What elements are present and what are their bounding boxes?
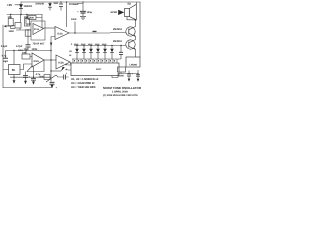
speaker LS1 [125,2,137,20]
svg-text:1N4001: 1N4001 [24,5,33,8]
wire U2B output [70,62,71,65]
resistor R2 [25,15,32,27]
wire ground return [10,76,51,78]
transistor Q2 [126,40,136,50]
resistor R8 [25,30,31,36]
resistor R3 feedback [26,16,42,25]
box IC2 timer [3,51,32,75]
capacitor C3 [119,46,123,60]
svg-text:(C) 2008 ZEN HOME CIRCUITS: (C) 2008 ZEN HOME CIRCUITS [103,94,138,97]
wire right rail [139,2,141,57]
junction blob [93,31,97,32]
wire bottom right [112,74,138,78]
wire U1B output to Q1 base [69,32,126,35]
wire left rail [2,25,4,88]
svg-text:4.7µF: 4.7µF [16,45,23,48]
box small [44,75,50,80]
diode D6 [103,46,107,60]
diode D3 [82,46,86,60]
diode D5 [96,46,100,60]
capacitor C10 at rail end [50,82,58,89]
wire +9V top rail [21,1,140,3]
wire fb right vertical [41,15,43,29]
svg-text:U1, U2 = LM358CN x2: U1, U2 = LM358CN x2 [71,78,99,81]
U2A feedback loop [27,60,44,72]
wire U1B supply stub [66,2,68,27]
svg-text:POWER: POWER [69,3,79,6]
wire diode bus [74,45,126,47]
svg-text:0.1µF: 0.1µF [1,45,8,48]
op-amp U2A [32,53,44,67]
svg-text:100K: 100K [39,76,45,79]
svg-text:U3 = CD4017BE IC: U3 = CD4017BE IC [71,82,95,85]
svg-text:750K: 750K [29,17,35,20]
wire U1A output [44,27,56,29]
op-amp U1A [31,21,45,40]
ground C2 [80,16,86,19]
box B1 [126,57,140,67]
svg-text:10K: 10K [8,16,13,19]
svg-text:+9V: +9V [7,3,12,7]
wire diode feed [15,2,21,15]
junction dots [10,1,139,77]
svg-text:100K: 100K [32,48,38,51]
svg-text:750 R 4K7: 750 R 4K7 [33,43,46,46]
wire upper supply rail [7,14,42,16]
wire lower supply rail [8,50,51,52]
diode D2 [75,46,79,60]
svg-text:1N4148: 1N4148 [35,3,44,6]
capacitor C1 timing [26,30,31,51]
wire U1B fb input [50,37,55,51]
svg-text:IC1b: IC1b [57,32,63,35]
IC left stubs [66,64,72,70]
svg-text:SW1: SW1 [54,2,60,5]
diode D1 [19,4,23,8]
pin numbers [74,60,115,62]
svg-text:10K: 10K [22,52,27,55]
svg-text:4017: 4017 [96,68,102,71]
capacitor C4 [3,51,8,63]
IC U3 pins [73,59,117,63]
svg-text:100K: 100K [71,18,77,21]
box R6 [118,67,126,78]
resistor R5 [22,51,32,60]
svg-text:SCHM TONE OSCILLATOR: SCHM TONE OSCILLATOR [103,86,142,90]
svg-text:SPKR: SPKR [111,11,118,14]
svg-text:2N3904: 2N3904 [113,40,122,43]
svg-text:LM386: LM386 [130,64,138,67]
IC U3 body [71,63,119,76]
svg-text:IC2a: IC2a [34,60,40,63]
capacitor C8 [56,72,69,79]
node stub [74,22,76,34]
svg-text:100K: 100K [118,75,124,78]
svg-text:100K: 100K [9,30,15,33]
wire U2A output [44,59,56,61]
svg-text:U4 = 74HC14N HEX: U4 = 74HC14N HEX [71,86,96,89]
feedback arrow U2B [51,67,65,72]
capacitor C2 supply [77,2,92,16]
wire IC pin line [72,58,121,60]
ground right [136,70,140,82]
transistor Q1 [126,27,136,37]
capacitor C6 [23,72,31,85]
svg-text:IC2b: IC2b [58,62,64,65]
diode D8 [48,2,52,11]
op-amp U2B [56,55,70,69]
wire Q2 emitter down [135,50,137,58]
svg-text:2N3904: 2N3904 [113,28,122,31]
capacitor C5 polarized [127,71,134,82]
svg-text:100µ: 100µ [87,11,93,14]
svg-text:4.7µ: 4.7µ [2,55,7,58]
op-amp U1B [55,27,69,40]
svg-text:50: 50 [12,68,16,72]
diode D4 [89,46,93,60]
wire bottom ground rail [3,87,52,89]
potentiometer VR1 [4,15,31,31]
resistor R1 [8,15,13,27]
ground under IC2 [13,75,16,84]
wire junction vertical [50,51,52,82]
wire Q1 emitter to Q2 collector [135,37,137,40]
diode D7 [110,46,114,60]
svg-text:IC1a: IC1a [34,28,40,31]
capacitor C7 [31,67,36,85]
diode across speaker [118,10,124,15]
wire Q1 collector to speaker [135,20,137,27]
capacitor C9 [59,2,63,11]
switch SW2 [46,75,56,82]
svg-text:8Ω: 8Ω [128,3,131,6]
